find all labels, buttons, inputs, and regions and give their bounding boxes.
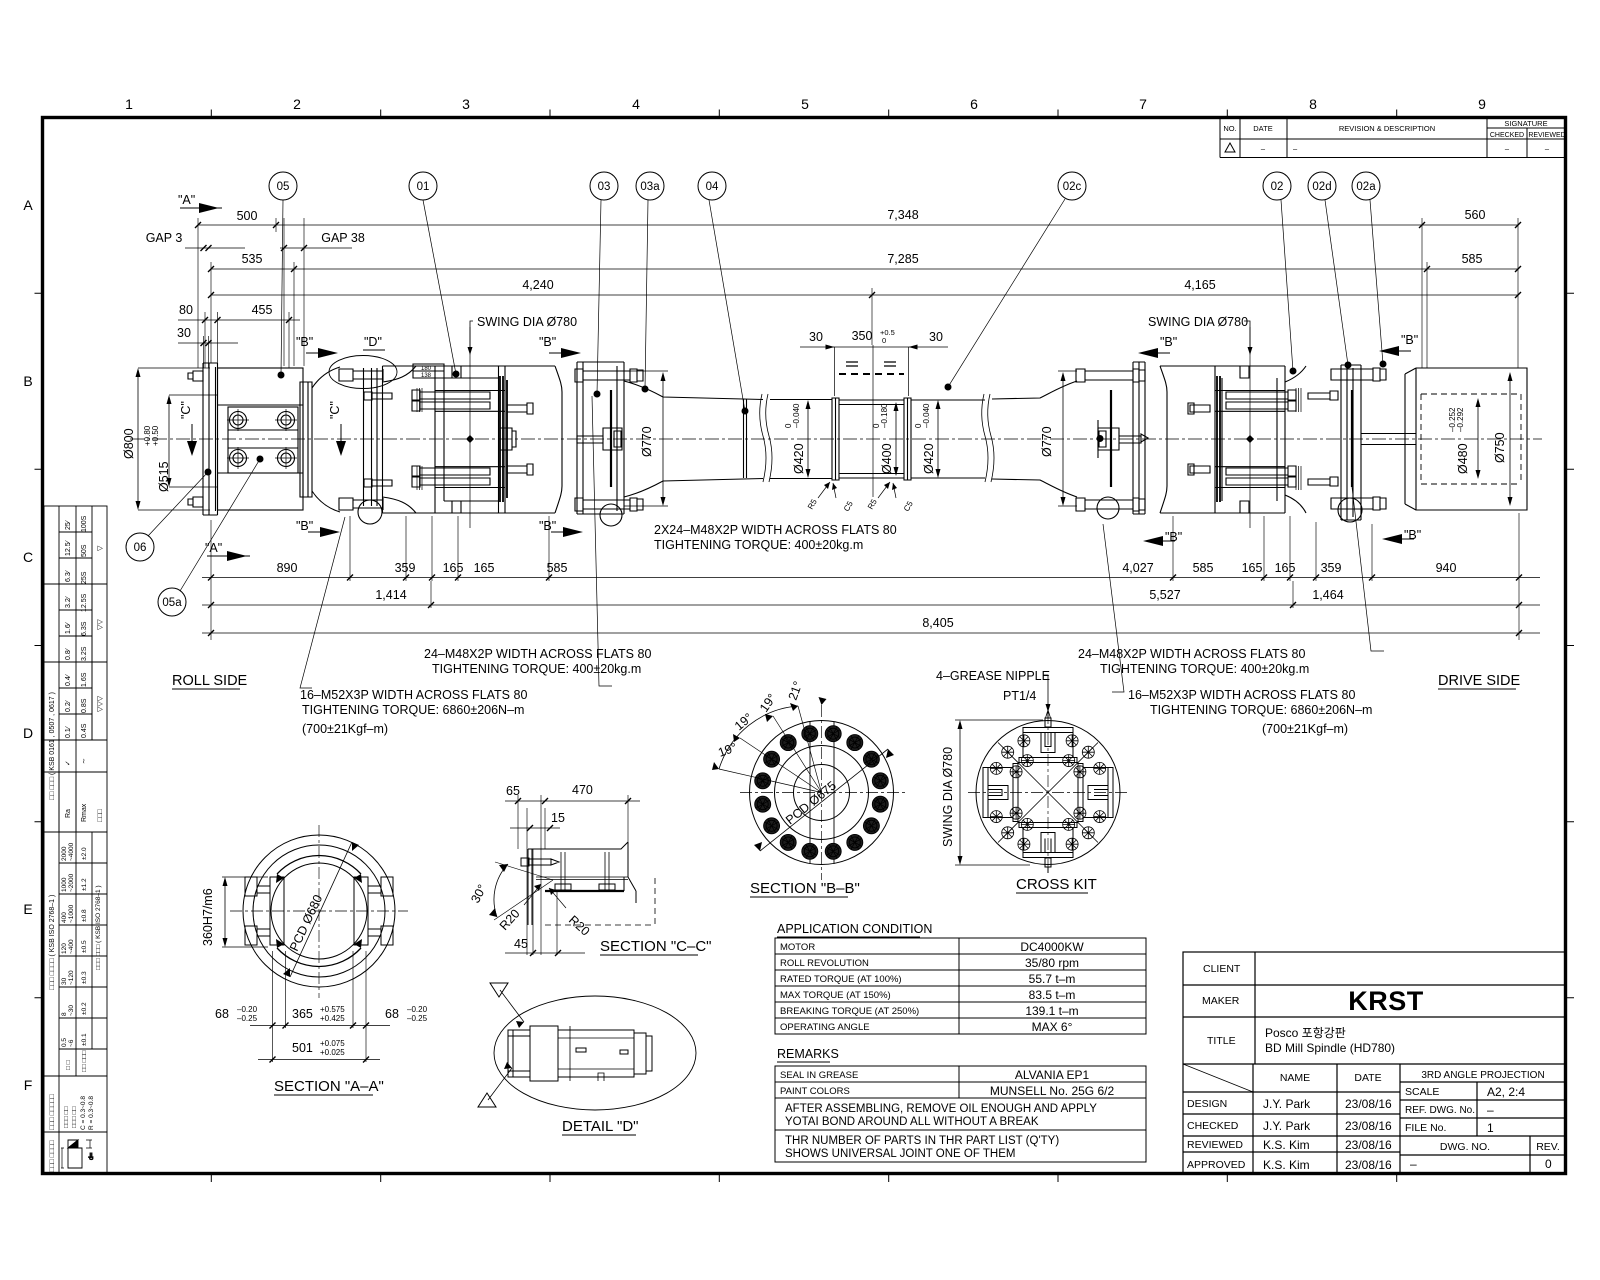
svg-text:0.1∕: 0.1∕ <box>65 725 72 738</box>
svg-text:TITLE: TITLE <box>1207 1035 1236 1047</box>
svg-text:CROSS KIT: CROSS KIT <box>1016 876 1097 893</box>
svg-text:–0.040: –0.040 <box>922 403 931 428</box>
svg-text:560: 560 <box>1465 208 1486 222</box>
gap3 ticks <box>201 245 212 251</box>
svg-text:▽▽: ▽▽ <box>97 619 104 630</box>
right block mating bars <box>1217 376 1220 502</box>
svg-text:1000: 1000 <box>61 877 68 892</box>
svg-text:50S: 50S <box>81 544 88 557</box>
svg-text:02d: 02d <box>1312 181 1331 193</box>
svg-text:165: 165 <box>1275 561 1296 575</box>
svg-text:SWING DIA Ø780: SWING DIA Ø780 <box>941 747 955 847</box>
svg-text:2000: 2000 <box>61 846 68 861</box>
svg-text:06: 06 <box>134 542 147 554</box>
roll-side end: bolt top-left <box>188 371 203 381</box>
svg-text:NAME: NAME <box>1280 1072 1310 1084</box>
left yoke flange bolt top inner <box>364 392 392 400</box>
svg-text:400: 400 <box>61 912 68 923</box>
svg-text:MAX 6°: MAX 6° <box>1032 1020 1073 1034</box>
svg-text:d=: d= <box>88 1152 95 1160</box>
svg-text:35/80 rpm: 35/80 rpm <box>1025 956 1079 970</box>
svg-text:–0.180: –0.180 <box>880 403 889 428</box>
svg-text:C = 0.3~0.8: C = 0.3~0.8 <box>80 1096 87 1130</box>
left yoke flange bolt bottom outer <box>339 498 383 510</box>
section AA left bolts <box>257 886 270 936</box>
svg-text:□□□ □□□□ ( KSB ISO 2768–1 ): □□□ □□□□ ( KSB ISO 2768–1 ) <box>49 895 56 990</box>
shaft mid left <box>770 400 832 479</box>
section AA centerlines <box>230 825 408 998</box>
section AA dim row2 <box>258 1059 380 1061</box>
svg-text:24–M48X2P WIDTH ACROSS FLAT: 24–M48X2P WIDTH ACROSS FLATS 80 <box>1078 647 1305 661</box>
CC dim 65/470 <box>505 800 640 802</box>
section AA ext lines down <box>273 951 367 1062</box>
svg-text:6.3S: 6.3S <box>81 621 88 636</box>
svg-text:J.Y. Park: J.Y. Park <box>1263 1119 1311 1133</box>
detail D bolt inner lines <box>558 1026 634 1081</box>
roll-side hub right plate <box>300 382 312 497</box>
svg-text:SWING DIA Ø780: SWING DIA Ø780 <box>477 315 577 329</box>
BB pcd dim diagonal <box>760 749 888 851</box>
svg-text:"B": "B" <box>296 519 313 533</box>
revision triangle mark <box>1225 143 1235 152</box>
svg-text:C: C <box>23 549 33 565</box>
svg-text:R = 0.3~0.8: R = 0.3~0.8 <box>88 1096 95 1130</box>
svg-text:3: 3 <box>462 96 470 112</box>
left roughness table <box>44 506 107 832</box>
shaft yoke arm left <box>555 366 562 513</box>
svg-text:45: 45 <box>514 937 528 951</box>
svg-text:□□ □□□: □□ □□□ <box>81 1050 88 1072</box>
svg-text:68: 68 <box>385 1007 399 1021</box>
svg-text:Ø750: Ø750 <box>1493 432 1507 463</box>
left shaft flange bolt bottom <box>575 498 643 511</box>
left yoke transition <box>312 367 340 512</box>
svg-text:CHECKED: CHECKED <box>1187 1120 1239 1132</box>
shaft mid right <box>911 400 985 478</box>
left edge table <box>44 1076 107 1132</box>
svg-text:165: 165 <box>1242 561 1263 575</box>
left shaft flange bolt top <box>575 369 643 382</box>
svg-text:±0.8: ±0.8 <box>81 909 88 922</box>
svg-text:0.2∕: 0.2∕ <box>65 699 72 712</box>
svg-text:–: – <box>1410 1157 1417 1171</box>
grid ticks right <box>1566 293 1574 998</box>
cross kit left cup <box>983 764 1018 822</box>
CC studs <box>561 852 609 890</box>
svg-text:165: 165 <box>443 561 464 575</box>
SECTION_BB <box>712 697 905 880</box>
bottom ticks row3 <box>208 630 1522 636</box>
left yoke flange bolt top outer <box>339 369 383 381</box>
svg-text:±0.5: ±0.5 <box>81 940 88 953</box>
right ujoint center dot <box>1246 435 1254 443</box>
svg-text:J.Y. Park: J.Y. Park <box>1263 1097 1311 1111</box>
ANNOTATIONS <box>300 523 1372 736</box>
svg-text:4: 4 <box>632 96 640 112</box>
left shaft flange mating face <box>610 390 612 487</box>
svg-text:68: 68 <box>215 1007 229 1021</box>
svg-text:±1.2: ±1.2 <box>81 878 88 891</box>
svg-text:Ø420: Ø420 <box>922 443 936 474</box>
svg-text:□□□ □□□□□: □□□ □□□□□ <box>49 1093 56 1130</box>
left ujoint center dot <box>466 435 474 443</box>
svg-text:"A": "A" <box>205 541 222 555</box>
svg-text:GAP 3: GAP 3 <box>146 231 183 245</box>
bottom dim row 3 <box>202 632 1540 634</box>
svg-text:165: 165 <box>474 561 495 575</box>
svg-text:TIGHTENING TORQUE: 400±20kg.: TIGHTENING TORQUE: 400±20kg.m <box>654 538 863 552</box>
dim ticks row2 <box>208 266 1521 272</box>
svg-text:138: 138 <box>421 373 432 379</box>
svg-text:–: – <box>1487 1103 1494 1117</box>
drive yoke flange plates <box>1341 365 1361 520</box>
svg-text:1.6∕: 1.6∕ <box>65 621 72 634</box>
cross kit diagonals <box>998 743 1098 843</box>
section AA pcd arc arrows <box>277 856 361 967</box>
left yoke flange plates <box>364 366 383 513</box>
svg-text:9: 9 <box>1478 96 1486 112</box>
svg-text:1.6S: 1.6S <box>81 672 88 687</box>
svg-text:23/08/16: 23/08/16 <box>1345 1097 1392 1111</box>
svg-text:D: D <box>23 725 33 741</box>
svg-text:4,165: 4,165 <box>1184 278 1215 292</box>
svg-text:□ □: □ □ <box>65 1060 72 1070</box>
grid row letters <box>23 197 33 1093</box>
CC dim 15 <box>510 827 560 829</box>
svg-text:24–M48X2P WIDTH ACROSS FLAT: 24–M48X2P WIDTH ACROSS FLATS 80 <box>424 647 651 661</box>
svg-text:"D": "D" <box>364 335 382 349</box>
balloon numbers <box>134 181 1377 609</box>
cross kit center square <box>1018 763 1078 823</box>
drive yoke mating face <box>1351 390 1353 487</box>
section AA right outer plate <box>381 877 393 945</box>
svg-text:□□□ □□: □□□ □□ <box>63 1106 70 1128</box>
svg-text:890: 890 <box>277 561 298 575</box>
svg-text:1,464: 1,464 <box>1312 588 1343 602</box>
svg-text:TIGHTENING TORQUE: 6860±206N: TIGHTENING TORQUE: 6860±206N–m <box>1150 703 1372 717</box>
svg-text:"C": "C" <box>328 401 342 419</box>
roll-side hub block <box>218 368 304 510</box>
svg-text:~400: ~400 <box>68 939 75 954</box>
grid column numbers <box>125 96 1486 112</box>
svg-text:"B": "B" <box>1165 530 1182 544</box>
svg-text:–0.20: –0.20 <box>407 1005 428 1014</box>
svg-text:470: 470 <box>572 783 593 797</box>
svg-text:4,240: 4,240 <box>522 278 553 292</box>
svg-text:APPROVED: APPROVED <box>1187 1159 1246 1171</box>
svg-text:23/08/16: 23/08/16 <box>1345 1158 1392 1172</box>
left flange hub <box>577 428 622 450</box>
svg-text:±0.3: ±0.3 <box>81 971 88 984</box>
dim ticks row3 <box>208 292 1521 298</box>
svg-text:80: 80 <box>179 303 193 317</box>
svg-text:MAKER: MAKER <box>1202 995 1240 1007</box>
dim 770 left <box>662 374 664 504</box>
cross kit right cup <box>1078 764 1113 822</box>
BALLOONS <box>126 172 1383 616</box>
R5 C5 leader arrows <box>818 482 896 498</box>
svg-text:Ø770: Ø770 <box>640 426 654 457</box>
svg-text:ROLL REVOLUTION: ROLL REVOLUTION <box>780 958 869 969</box>
svg-text:30: 30 <box>809 330 823 344</box>
weld corner symbol <box>61 1140 95 1168</box>
right shaft flange plates <box>1098 362 1145 514</box>
svg-text:23/08/16: 23/08/16 <box>1345 1138 1392 1152</box>
spline equal marks <box>846 362 896 366</box>
svg-text:K.S. Kim: K.S. Kim <box>1263 1158 1310 1172</box>
section AA left outer plate <box>245 877 257 945</box>
svg-text:359: 359 <box>395 561 416 575</box>
drive sleeve bore hidden <box>1421 394 1521 484</box>
svg-text:RATED TORQUE (AT 100%): RATED TORQUE (AT 100%) <box>780 974 902 985</box>
dim 800 left <box>137 370 139 508</box>
svg-text:120: 120 <box>61 943 68 954</box>
svg-text:✓: ✓ <box>65 760 72 766</box>
detail D arrows <box>488 990 524 1100</box>
svg-text:□□□ □□□□: □□□ □□□□ <box>49 1140 56 1172</box>
svg-text:TIGHTENING TORQUE: 400±20kg.: TIGHTENING TORQUE: 400±20kg.m <box>432 662 641 676</box>
shaft break left <box>760 394 772 482</box>
svg-text:+0.025: +0.025 <box>320 1048 345 1057</box>
right block cap bolts <box>1226 390 1296 487</box>
left flange bottom circle <box>600 504 622 526</box>
svg-text:B: B <box>23 373 32 389</box>
svg-text:A2, 2:4: A2, 2:4 <box>1487 1085 1525 1099</box>
drive yoke bolt bottom <box>1331 497 1386 510</box>
swing dia 780 dim <box>959 722 961 863</box>
left weld table <box>44 1132 107 1174</box>
grid ticks left <box>35 293 43 998</box>
svg-text:~30: ~30 <box>68 1005 75 1016</box>
svg-text:–0.292: –0.292 <box>1456 407 1465 432</box>
svg-text:DATE: DATE <box>1253 124 1272 133</box>
svg-text:3.2S: 3.2S <box>81 646 88 661</box>
roll-side end plates <box>203 363 218 515</box>
svg-text:"B": "B" <box>1401 333 1418 347</box>
spline shaft <box>839 400 904 478</box>
bottom dim labels <box>277 561 1457 630</box>
right flange bolt bottom <box>1076 498 1145 511</box>
svg-text:DETAIL "D": DETAIL "D" <box>562 1118 639 1135</box>
spline collar right <box>904 398 911 480</box>
svg-text:ROLL SIDE: ROLL SIDE <box>172 673 248 689</box>
svg-text:12.5S: 12.5S <box>81 593 88 612</box>
section AA pcd dim <box>290 842 352 977</box>
right yoke flange transition <box>1285 366 1306 513</box>
CC profile top <box>528 842 628 925</box>
svg-text:SHOWS UNIVERSAL JOINT ONE: SHOWS UNIVERSAL JOINT ONE OF THEM <box>785 1148 1015 1160</box>
svg-text:3RD ANGLE PROJECTION: 3RD ANGLE PROJECTION <box>1421 1070 1544 1081</box>
GAP38 dim <box>280 247 352 249</box>
svg-text:(700±21Kgf–m): (700±21Kgf–m) <box>302 722 388 736</box>
left block mating bars <box>500 376 507 502</box>
svg-text:SIGNATURE: SIGNATURE <box>1504 119 1547 128</box>
drive stub shaft <box>1361 434 1416 445</box>
shaft left taper <box>624 381 763 497</box>
svg-text:01: 01 <box>417 181 430 193</box>
svg-text:ALVANIA EP1: ALVANIA EP1 <box>1015 1068 1090 1082</box>
dim 420 right <box>937 402 939 476</box>
svg-text:GAP 38: GAP 38 <box>321 231 365 245</box>
svg-text:139.1 t–m: 139.1 t–m <box>1025 1004 1078 1018</box>
svg-text:□□□ □□□ ( KSB ISO 2768–1 ): □□□ □□□ ( KSB ISO 2768–1 ) <box>95 885 102 970</box>
svg-text:5: 5 <box>801 96 809 112</box>
gap38 ticks <box>281 245 307 251</box>
svg-text:F: F <box>24 1077 33 1093</box>
BB centerlines <box>740 705 905 880</box>
dim 770 right <box>1062 374 1064 504</box>
spline dashed line <box>839 373 904 375</box>
dim row 80/455 <box>178 319 300 321</box>
SECTION_CC <box>489 795 655 956</box>
svg-text:0.8S: 0.8S <box>81 698 88 713</box>
drive yoke bolt top <box>1331 368 1386 381</box>
svg-text:"C": "C" <box>179 401 193 419</box>
svg-text:Ra: Ra <box>65 809 72 818</box>
svg-text:585: 585 <box>1462 252 1483 266</box>
svg-text:30: 30 <box>61 977 68 985</box>
cross kit outer circle <box>976 721 1120 865</box>
CC angle arc 30 <box>494 864 508 917</box>
svg-text:+0.575: +0.575 <box>320 1005 345 1014</box>
cross kit top cup <box>1019 728 1077 763</box>
dim ticks row1 <box>195 222 1521 228</box>
svg-text:585: 585 <box>547 561 568 575</box>
balloon leaders <box>148 199 1383 591</box>
CC thick line <box>545 890 624 892</box>
svg-text:MOTOR: MOTOR <box>780 942 815 953</box>
svg-text:1: 1 <box>125 96 133 112</box>
svg-text:8: 8 <box>1309 96 1317 112</box>
svg-text:REV.: REV. <box>1536 1141 1560 1153</box>
extension lines top <box>198 218 1518 368</box>
BB inner circles <box>775 746 869 840</box>
section marks B bottom <box>296 519 1421 544</box>
left yoke flange bottom circle <box>358 500 382 524</box>
svg-text:∼: ∼ <box>81 758 88 764</box>
right block serration <box>1296 388 1301 490</box>
bottom extension lines <box>211 513 1519 640</box>
tube weld joint <box>744 399 747 478</box>
cross kit bottom cup <box>1019 823 1077 858</box>
dim ticks row4 <box>202 317 292 323</box>
svg-text:CHECKED: CHECKED <box>1490 132 1524 139</box>
svg-text:0: 0 <box>882 336 886 345</box>
svg-text:NO.: NO. <box>1223 124 1236 133</box>
dim row 535/7285/585 <box>211 268 1518 270</box>
svg-text:"B": "B" <box>539 519 556 533</box>
svg-text:8: 8 <box>61 1012 68 1016</box>
svg-text:03: 03 <box>598 181 611 193</box>
svg-text:FILE No.: FILE No. <box>1405 1122 1446 1134</box>
section marks C <box>179 401 346 456</box>
svg-text:SWING DIA Ø780: SWING DIA Ø780 <box>1148 315 1248 329</box>
bottom dim row 1 <box>202 577 1540 579</box>
svg-text:5,527: 5,527 <box>1149 588 1180 602</box>
svg-text:16–M52X3P WIDTH ACROSS FLAT: 16–M52X3P WIDTH ACROSS FLATS 80 <box>1128 688 1355 702</box>
swing dia arrow left <box>468 347 473 355</box>
svg-text:2X24–M48X2P WIDTH ACROSS FL: 2X24–M48X2P WIDTH ACROSS FLATS 80 <box>654 523 897 537</box>
svg-text:585: 585 <box>1193 561 1214 575</box>
svg-text:BD Mill Spindle (HD780): BD Mill Spindle (HD780) <box>1265 1041 1395 1055</box>
svg-text:THR NUMBER OF PARTS IN TH: THR NUMBER OF PARTS IN THR PART LIST (Q'… <box>785 1135 1059 1147</box>
svg-text:DRIVE SIDE: DRIVE SIDE <box>1438 673 1521 689</box>
svg-text:03a: 03a <box>640 181 660 193</box>
left block top bolt <box>452 366 461 513</box>
bottom dim row 2 <box>202 604 1540 606</box>
svg-text:4,027: 4,027 <box>1122 561 1153 575</box>
svg-text:+0.425: +0.425 <box>320 1014 345 1023</box>
CC R20 leaders <box>524 884 566 908</box>
svg-text:180: 180 <box>421 366 432 372</box>
drive yoke bottom circle <box>1338 498 1362 522</box>
roll-side hub inner plate <box>228 407 298 473</box>
svg-text:"B": "B" <box>296 335 313 349</box>
right shaft flange mating face <box>1110 390 1112 487</box>
svg-text:±0.1: ±0.1 <box>81 1033 88 1046</box>
svg-text:□□□: □□□ <box>97 809 104 822</box>
svg-text:PT1/4: PT1/4 <box>1003 689 1036 703</box>
svg-text:940: 940 <box>1436 561 1457 575</box>
svg-text:05: 05 <box>277 181 290 193</box>
svg-text:▽: ▽ <box>97 545 104 551</box>
cross kit diagonal bolt groups <box>990 735 1105 850</box>
dim row 500/7348/560 <box>198 224 1518 226</box>
section AA right bolts <box>368 886 381 936</box>
svg-text:REF. DWG. No.: REF. DWG. No. <box>1405 1105 1475 1116</box>
right ujoint center line <box>1249 327 1251 528</box>
svg-text:OPERATING ANGLE: OPERATING ANGLE <box>780 1022 870 1033</box>
svg-text:SECTION "B–B": SECTION "B–B" <box>750 880 860 897</box>
right flange bottom circle <box>1097 497 1119 519</box>
bottom ticks row1 <box>208 575 1522 581</box>
svg-text:PAINT COLORS: PAINT COLORS <box>780 1086 850 1097</box>
section AA left plate <box>270 877 284 945</box>
dim row 4240/4165 <box>211 294 1518 296</box>
TITLE_BLOCK <box>1183 952 1566 1174</box>
svg-text:30: 30 <box>177 326 191 340</box>
svg-text:±2.0: ±2.0 <box>81 847 88 860</box>
svg-text:KRST: KRST <box>1348 986 1424 1016</box>
svg-text:55.7 t–m: 55.7 t–m <box>1029 972 1076 986</box>
svg-text:SCALE: SCALE <box>1405 1086 1439 1098</box>
svg-text:535: 535 <box>242 252 263 266</box>
svg-text:REMARKS: REMARKS <box>777 1047 839 1061</box>
right flange bolt top <box>1076 369 1145 382</box>
svg-text:REVIEWED: REVIEWED <box>1187 1139 1243 1151</box>
roughness symbols col <box>65 515 104 822</box>
GAP3 dim <box>185 247 245 249</box>
BB angle arcs <box>719 706 798 769</box>
svg-text:+0.50: +0.50 <box>151 425 160 446</box>
svg-text:~6: ~6 <box>68 1039 75 1047</box>
svg-text:Posco 포항강판: Posco 포항강판 <box>1265 1026 1346 1040</box>
yoke dim boxes 180/138 <box>413 364 444 378</box>
svg-text:350: 350 <box>852 329 873 343</box>
dim 515 left <box>168 397 170 485</box>
detail D bolt pin <box>576 1048 628 1054</box>
swing leader right <box>1244 321 1250 348</box>
top dim labels <box>146 208 1486 344</box>
spline collar left <box>832 398 839 480</box>
svg-text:~1000: ~1000 <box>68 904 75 923</box>
svg-text:–0.25: –0.25 <box>407 1014 428 1023</box>
svg-text:±0.2: ±0.2 <box>81 1002 88 1015</box>
shaft right taper <box>992 381 1077 497</box>
dim ticks row5 <box>201 340 212 346</box>
svg-text:0.4S: 0.4S <box>81 723 88 738</box>
svg-text:DESIGN: DESIGN <box>1187 1098 1227 1110</box>
